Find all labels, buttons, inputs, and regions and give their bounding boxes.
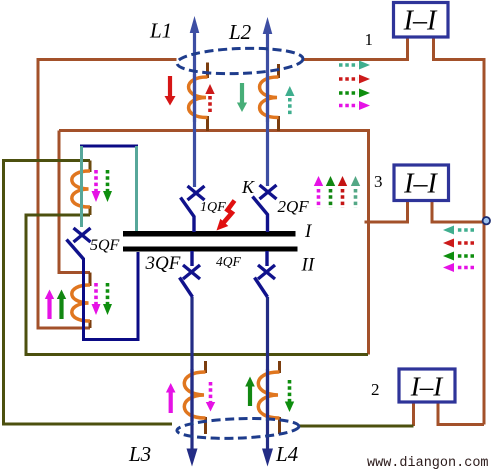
arrow: teal dashed left (right side row 1) [443, 226, 474, 235]
wire: brown junction arm y=222 to instrument 3 left pin [365, 200, 408, 222]
arrow: green solid down (L2 primary current) [237, 83, 247, 112]
wire: instrument 1 right pin down right edge [434, 37, 485, 425]
arrow: red solid down (L1 primary current) [165, 76, 176, 106]
breaker 3QF [180, 251, 201, 297]
svg-text:www.diangon.com: www.diangon.com [367, 456, 489, 471]
svg-text:I–I: I–I [403, 6, 438, 37]
svg-text:I–I: I–I [410, 372, 444, 402]
arrow: magenta solid up (coil B) [45, 290, 54, 320]
node junction dot on right bus [483, 217, 490, 224]
instrument U1 (I-I box 1) [394, 3, 449, 38]
wire: teal vertical to 5QF [80, 146, 83, 227]
busbar II [123, 247, 298, 252]
arrow: green dashed down (coil A) [103, 170, 112, 202]
wire overlay: L4 through coil [266, 369, 269, 421]
instrument U3 (I-I box 3) [394, 165, 449, 201]
arrow: teal dashed up (L2 CT secondary) [285, 86, 294, 115]
arrow: red dashed left (right side row 2) [443, 239, 474, 248]
arrow: teal dashed right (row 1 near instrument 1) [339, 61, 370, 70]
arrow: green dashed right (row 3) [339, 89, 370, 98]
arrow: magenta dashed up (group near K) [314, 176, 323, 208]
coil tail A bottom [89, 206, 92, 215]
coil tail L2 top [277, 64, 280, 78]
coil tail L4 bottom [278, 417, 281, 434]
wire: teal vertical to bus I [135, 146, 138, 231]
coil tail L1 bottom [206, 116, 209, 131]
wire: brown net from CT1 (L1 coil top) to instrument 1 left pin [303, 37, 408, 60]
coil tail L2 bottom [277, 116, 280, 131]
CT coil on L1 [189, 77, 208, 118]
wire: navy top bar of 5QF branch [80, 145, 138, 148]
wire: olive net 2 (coil A bottom, down to long horizontal y=354.5) [26, 215, 368, 355]
svg-text:L1: L1 [149, 19, 172, 43]
fault bolt K (red lightning arrow) [217, 201, 235, 231]
instrument U2 (I-I box 2) [399, 369, 455, 402]
arrow: green dashed down (coil B) [103, 283, 112, 315]
feeder L4 arrowhead [262, 449, 273, 467]
wire overlay: L1 through coil [193, 74, 196, 122]
wire: brown left segment y=59.5 down left side to coil B bottom [38, 60, 177, 329]
arrow: red dashed right (row 2) [339, 75, 370, 84]
wire: navy U below 5QF to bus II [84, 252, 139, 340]
dashed CT ellipse top [177, 46, 304, 75]
breaker 4QF [255, 251, 276, 297]
wire: instrument 2 left pin [412, 402, 415, 426]
coil tail L3 top [204, 361, 207, 373]
CT coil on L3 [184, 372, 205, 418]
arrow: magenta solid up (L3 primary) [166, 383, 176, 413]
wire: brown horizontal y=130.5 with right vertical to y=354.5 [59, 131, 369, 355]
svg-text:K: K [241, 177, 255, 197]
feeder L3 arrowhead [187, 449, 198, 467]
arrow: green dashed down (L4 CT secondary) [285, 380, 294, 412]
coil tail B bottom [89, 320, 92, 328]
busbar I [123, 231, 296, 237]
svg-text:3QF: 3QF [145, 253, 181, 274]
wire overlay: navy through coil B [82, 282, 85, 324]
svg-text:2QF: 2QF [278, 197, 310, 216]
CT coil on L4 [258, 372, 279, 418]
arrow: red dashed up (group near K) [338, 176, 347, 208]
arrow: teal dashed up (group near K) [351, 176, 360, 208]
arrow: magenta dashed down (coil A) [92, 170, 101, 202]
wire overlay: L2 through coil [266, 74, 269, 122]
wire overlay: teal through coil A [80, 168, 83, 210]
svg-text:5QF: 5QF [90, 237, 120, 254]
wire: instrument 3 right pin to right bus [432, 200, 484, 222]
feeder L4 line [266, 297, 269, 450]
arrow: green solid up (L4 primary) [245, 377, 255, 407]
dashed CT ellipse bottom [177, 417, 300, 441]
svg-text:2: 2 [371, 380, 380, 399]
coil tail B top [89, 273, 92, 287]
arrow: magenta dashed left (right side row 4) [443, 263, 474, 272]
svg-text:L4: L4 [275, 442, 299, 466]
svg-text:1: 1 [365, 30, 374, 49]
CT coil on L2 [260, 77, 279, 118]
svg-text:1QF: 1QF [200, 200, 226, 215]
breaker 2QF [253, 185, 277, 232]
feeder L1 arrowhead [190, 16, 200, 33]
coil tail L3 bottom [204, 417, 207, 434]
arrow: magenta dashed down (coil B) [92, 283, 101, 315]
svg-text:4QF: 4QF [216, 254, 241, 269]
wire: olive net 1 (coil A top, down left edge, to L3 CT zone) [4, 161, 173, 425]
arrow: green dashed up (group near K) [326, 176, 335, 208]
breaker 1QF [181, 186, 205, 232]
wire: instrument 2 right pin to right bus [438, 402, 484, 425]
relay coil B [72, 285, 90, 321]
coil tail L1 top [206, 63, 209, 79]
feeder L2 arrowhead [263, 17, 273, 34]
breaker 5QF [67, 228, 91, 259]
coil tail L4 top [278, 361, 281, 373]
arrow: green dashed left (right side row 3) [443, 252, 474, 261]
svg-text:3: 3 [374, 172, 383, 191]
arrow: green solid up (coil B) [57, 290, 66, 320]
wire overlay: L3 through coil [190, 369, 193, 421]
coil tail A top [89, 161, 92, 173]
arrow: magenta dashed right (row 4) [339, 101, 370, 110]
CT coil A on tie branch [72, 171, 90, 207]
arrow: red dashed up (L1 CT secondary) [205, 84, 214, 112]
feeder L3 line [190, 297, 193, 450]
feeder L2 line [266, 30, 269, 186]
wire: brown left vertical x=59 to coil B top [59, 131, 90, 273]
feeder L1 line [193, 29, 196, 187]
arrow: magenta dashed down (L3 CT secondary) [206, 382, 215, 412]
svg-text:L2: L2 [228, 20, 252, 44]
svg-text:I–I: I–I [403, 169, 438, 200]
svg-text:II: II [301, 255, 316, 276]
wire: olive net 3 (L4 CT zone to instrument 2 left pin) [299, 425, 414, 428]
svg-text:L3: L3 [128, 442, 151, 466]
